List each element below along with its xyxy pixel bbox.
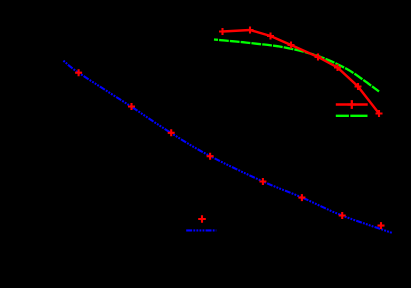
inset legend: red line sample [336, 103, 368, 105]
inset legend: green dashed sample (two dashes) [336, 115, 368, 117]
inset legend: red point sample (plus) [347, 100, 356, 109]
main fit curve (blue dash-dot line) [63, 61, 392, 234]
inset fit curve (green dashed) [214, 40, 379, 92]
inset data points (red plus markers) [219, 27, 383, 118]
main legend: data point sample (red plus) [198, 215, 206, 223]
inset data curve (red linespoints) [223, 30, 380, 114]
main legend: fit sample (blue dashed line) [186, 229, 216, 231]
main data points (red plus markers) [75, 69, 384, 229]
